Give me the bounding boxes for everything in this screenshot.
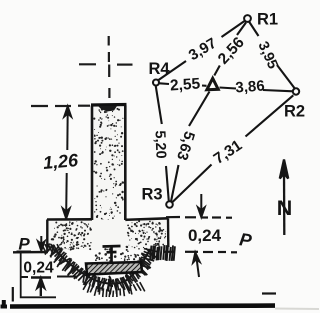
node R1 <box>244 15 251 22</box>
ground line left of footing <box>13 251 48 254</box>
svg-text:2,55: 2,55 <box>169 75 201 94</box>
anchor mark under post <box>103 246 121 262</box>
node R3 <box>166 201 173 208</box>
dimension 1,26 up arrow <box>64 107 71 151</box>
label 1,26 <box>42 150 80 173</box>
post (pillar) <box>91 105 127 250</box>
label 5,20 <box>152 130 169 159</box>
label R2 <box>284 103 305 121</box>
corner mark bottom-left <box>1 300 8 307</box>
short dash above right end <box>262 292 276 294</box>
label R3 <box>141 186 162 204</box>
label 0,24 right <box>188 226 222 245</box>
small mark below plate <box>109 276 113 286</box>
svg-text:N: N <box>277 196 293 220</box>
left depth bracket <box>21 252 56 298</box>
buried plate (hatched bar) <box>86 262 142 275</box>
wire triangle-R3 <box>171 92 210 202</box>
ground hatch left <box>42 244 61 253</box>
label N <box>277 196 293 220</box>
top dashed level line (footing top, right side) <box>166 216 232 219</box>
label P left with underline <box>17 235 32 254</box>
pit fringe hatching below <box>83 282 145 297</box>
bottom thick ground line <box>10 303 275 308</box>
label 3,95 <box>255 39 281 71</box>
dashed level at plate depth <box>21 276 77 279</box>
P left down arrow <box>38 236 44 251</box>
wire triangle-R1 <box>214 23 246 76</box>
label R4 <box>148 60 170 78</box>
up arrow with bar (left) <box>31 278 51 297</box>
wire R4-triangle (stubs) <box>160 83 207 86</box>
label 0,24 left <box>23 260 54 277</box>
svg-text:0,24: 0,24 <box>23 260 54 277</box>
svg-text:R3: R3 <box>141 186 162 204</box>
label 2,56 <box>215 34 248 68</box>
dimension 1,26 down arrow <box>63 173 70 219</box>
label 3,97 <box>186 35 220 65</box>
svg-text:1,26: 1,26 <box>42 150 80 173</box>
label 2,55 <box>169 75 201 94</box>
ground hatch right of pit <box>150 245 175 261</box>
svg-text:5,20: 5,20 <box>152 130 169 159</box>
label 7,31 <box>211 137 246 168</box>
label 3,86 <box>235 77 265 96</box>
label P right <box>238 229 254 251</box>
svg-text:R2: R2 <box>284 103 305 121</box>
wire triangle-R2 (stubs) <box>220 88 294 92</box>
dashed leader line at post top <box>31 105 90 108</box>
pit outline <box>55 249 150 284</box>
label R1 <box>257 11 278 29</box>
wire R4-R1 <box>159 21 245 80</box>
label 5,63 <box>173 129 198 162</box>
svg-text:0,24: 0,24 <box>188 226 222 245</box>
svg-text:R1: R1 <box>257 11 278 29</box>
up arrow to level (right) <box>193 253 200 278</box>
centerline vertical dashed <box>108 36 111 98</box>
node R4 <box>153 80 159 86</box>
small tick line left edge <box>12 287 14 302</box>
pit hatching <box>45 245 158 295</box>
station triangle <box>207 78 218 90</box>
bottom dashed level line (ground, right side) <box>163 251 237 254</box>
footing <box>47 218 168 261</box>
wire R4-R3 <box>156 86 169 202</box>
centerline horizontal dashes <box>79 63 133 65</box>
faint line continuation bottom right <box>275 308 319 311</box>
wire R3-R2 <box>173 95 294 202</box>
svg-text:3,86: 3,86 <box>235 77 265 96</box>
down arrow to level (right) <box>198 194 205 217</box>
wire R1-R2 <box>249 22 294 89</box>
node R2 <box>293 88 299 94</box>
north arrow line <box>280 160 288 236</box>
